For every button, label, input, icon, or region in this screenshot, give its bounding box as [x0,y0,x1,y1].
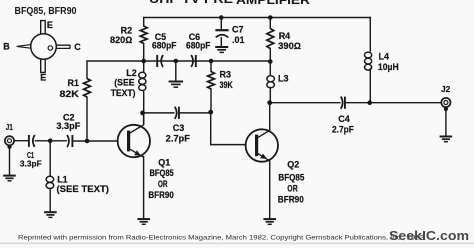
wire L3 column [269,62,271,103]
package lead E bottom [40,59,46,72]
svg-text:E: E [40,72,46,82]
wire R3 column [210,61,212,112]
svg-text:R4: R4 [279,31,291,41]
wire top rail [144,17,371,19]
inductor L1 SEE TEXT [46,176,54,182]
wire ground stem C5 C6 [175,61,177,81]
ground below Q2 emitter [263,218,276,220]
wire R1 column [86,61,88,141]
wire C7 column [220,18,222,47]
svg-text:.01: .01 [232,35,245,45]
node dot R1 Q1 base [85,139,90,144]
svg-text:3.3pF: 3.3pF [20,159,42,169]
svg-text:R2: R2 [121,25,133,35]
connector J2 [441,98,450,107]
svg-text:BFR90: BFR90 [148,190,173,200]
svg-text:BFQ85, BFR90: BFQ85, BFR90 [15,6,77,17]
wire R4 column [269,18,271,62]
package pinout BFQ85 BFR90 [17,21,70,73]
ground below C7 [215,46,228,48]
wire Q2 collector [269,103,271,130]
wire Q2 base [211,112,246,145]
svg-text:2.7pF: 2.7pF [166,134,191,144]
wire L4 column [369,18,371,103]
svg-text:OR: OR [287,184,298,194]
ground below J1 [3,175,16,177]
package lead E top [41,21,46,34]
svg-text:BFQ85: BFQ85 [278,172,304,182]
node dot rail2 ground [174,59,179,64]
svg-text:820Ω: 820Ω [110,35,132,45]
wire L1 column [49,141,51,211]
svg-text:B: B [3,41,10,51]
svg-text:Q2: Q2 [287,160,299,170]
capacitor C6 680pF [191,55,193,67]
svg-text:BFR90: BFR90 [278,195,304,205]
inductor L3 [267,76,275,82]
svg-text:Q1: Q1 [158,158,170,168]
wire J2 ground stem [445,109,447,135]
node dot rail2 R4 L3 [268,59,273,64]
ground below L1 [44,211,57,213]
transistor Q2 [246,129,278,161]
node dot J2 shell [444,107,448,111]
node dot Q1 collector C3 [140,111,145,116]
transistor Q1 [118,113,150,157]
wire J1 to C1 to C2 to Q1 [14,140,87,142]
node dot L4 output line [367,100,372,105]
resistor R4 390 ohm [267,29,274,49]
ground below C5 C6 junction [169,81,183,83]
svg-text:39K: 39K [220,80,234,90]
svg-text:R3: R3 [220,70,232,80]
wire J1 ground stem [9,145,11,174]
wire C3 branch [143,112,211,114]
resistor R2 820 ohm [140,26,147,43]
svg-text:Reprinted with permission from: Reprinted with permission from Radio-Ele… [18,235,426,242]
svg-text:390Ω: 390Ω [278,41,301,51]
wire rail2 [87,60,270,62]
resistor R1 82K [84,79,91,97]
capacitor C3 2.7pF [175,107,177,119]
ground below Q1 emitter [137,218,150,220]
wire R2 column [143,18,145,62]
svg-text:C3: C3 [173,123,185,133]
svg-text:680pF: 680pF [152,40,177,50]
package lead B [17,45,31,49]
resistor R3 39K [208,72,215,90]
node dot L3 C4 Q2 collector [267,100,272,105]
svg-text:82K: 82K [60,89,80,99]
svg-text:L3: L3 [278,74,289,84]
package lead C [56,45,70,49]
wire L2 column [143,61,145,125]
svg-text:SeekIC.com: SeekIC.com [389,228,469,243]
svg-text:680pF: 680pF [186,40,211,50]
svg-text:2.7pF: 2.7pF [332,125,354,135]
capacitor C5 680pF [156,55,158,67]
node dot top rail C7 [219,15,224,20]
node dot rail2 R3 [209,59,214,64]
svg-text:(SEE: (SEE [114,77,134,87]
svg-text:AMPLIFIER: AMPLIFIER [236,0,310,7]
svg-text:C4: C4 [338,114,350,124]
wire C4 output line [270,102,442,104]
node dot R3 C3 Q2 base [208,110,213,115]
svg-text:E: E [47,20,53,30]
inductor L2 SEE TEXT [139,72,146,78]
capacitor C2 3.3pF [67,135,69,147]
svg-text:OR: OR [158,179,168,189]
ground below J2 [440,136,453,138]
scan streak bottom [0,242,474,244]
svg-text:10µH: 10µH [378,62,399,72]
svg-text:C: C [74,42,81,52]
node dot top rail R4 [268,15,273,20]
wire Q1 emitter down [143,157,145,219]
wire Q2 emitter down [269,161,271,218]
svg-text:BFQ85: BFQ85 [150,168,174,178]
node dot rail2 R2 L2 [141,59,146,64]
connector J1 [5,136,14,145]
capacitor C4 2.7pF [341,97,343,109]
wire Q1 base [87,140,118,142]
node dot J1 shell [7,145,11,149]
svg-text:(SEE TEXT): (SEE TEXT) [57,184,110,194]
svg-text:3.3pF: 3.3pF [56,121,81,131]
svg-text:C7: C7 [232,25,244,35]
capacitor C1 3.3pF [28,135,30,147]
svg-text:J2: J2 [441,84,451,94]
capacitor C7 .01 [215,29,228,31]
svg-text:UHF TV PRE: UHF TV PRE [149,0,233,6]
svg-text:L4: L4 [379,51,390,61]
svg-text:TEXT): TEXT) [111,88,136,98]
inductor L4 10uH [365,52,372,58]
node dot L1 tap [48,139,53,144]
svg-text:R1: R1 [68,78,80,88]
svg-text:J1: J1 [6,122,13,132]
